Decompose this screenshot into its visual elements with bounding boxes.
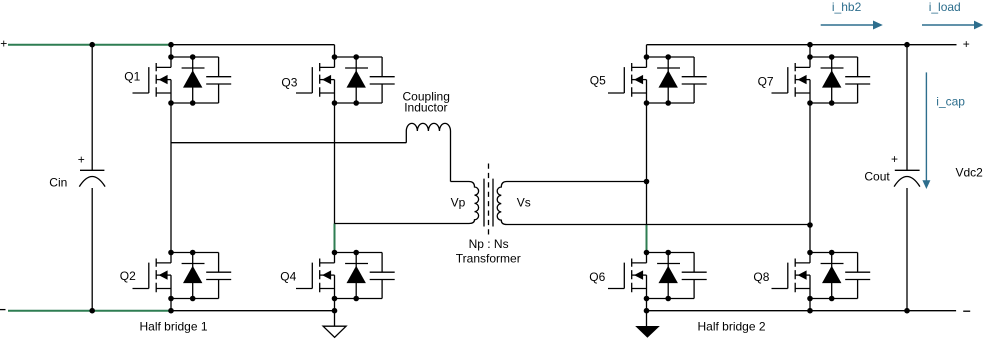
svg-text:i_load: i_load [929, 0, 961, 14]
svg-text:Q2: Q2 [120, 269, 136, 283]
svg-text:Inductor: Inductor [404, 101, 447, 115]
svg-text:Np : Ns: Np : Ns [469, 237, 509, 251]
svg-text:Q1: Q1 [124, 70, 140, 84]
svg-text:i_cap: i_cap [936, 94, 965, 108]
svg-text:+: + [963, 37, 970, 51]
svg-text:Q5: Q5 [590, 73, 606, 87]
svg-text:Transformer: Transformer [456, 251, 521, 265]
svg-text:+: + [78, 152, 85, 166]
svg-text:i_hb2: i_hb2 [832, 0, 862, 14]
svg-text:Vp: Vp [451, 195, 466, 209]
svg-text:Q7: Q7 [758, 75, 774, 89]
svg-text:Half bridge 2: Half bridge 2 [698, 319, 766, 333]
svg-text:+: + [0, 37, 7, 51]
svg-text:+: + [891, 152, 898, 166]
svg-text:Q4: Q4 [280, 270, 296, 284]
svg-text:Q6: Q6 [589, 270, 605, 284]
svg-text:Vs: Vs [517, 195, 531, 209]
svg-text:Q8: Q8 [753, 270, 769, 284]
svg-text:Half bridge 1: Half bridge 1 [140, 319, 208, 333]
svg-text:Q3: Q3 [281, 75, 297, 89]
svg-text:Vdc2: Vdc2 [956, 165, 984, 179]
svg-text:Cout: Cout [864, 170, 890, 184]
svg-text:Cin: Cin [49, 176, 67, 190]
